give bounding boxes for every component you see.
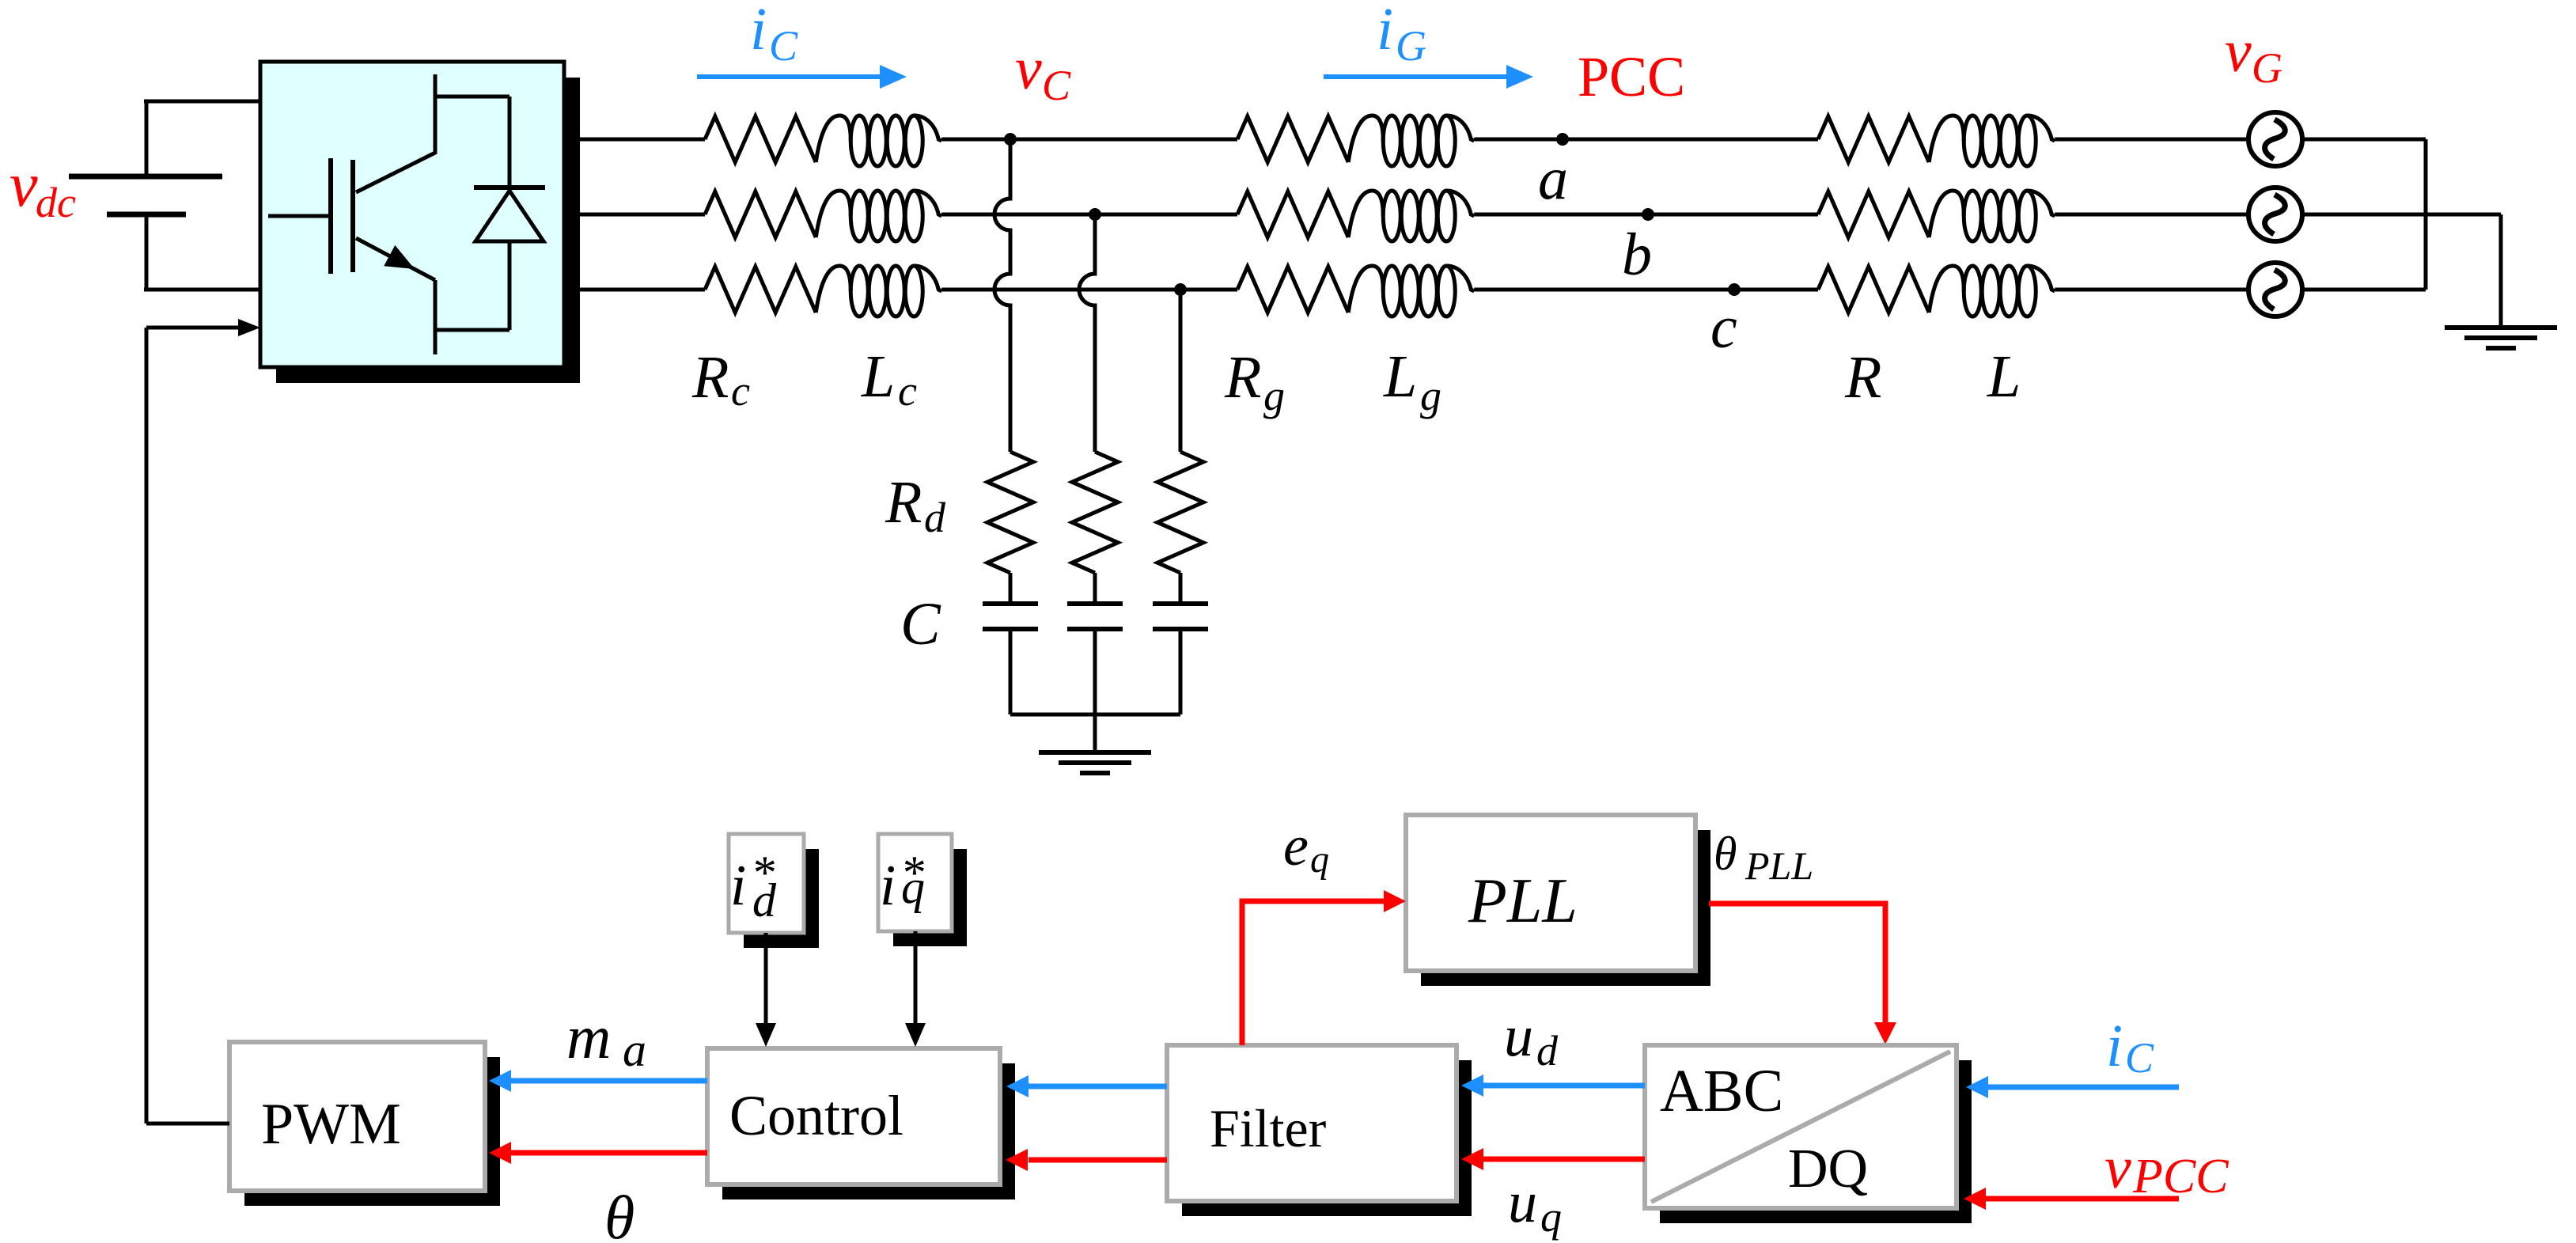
resistor Rc phase c [705, 267, 816, 313]
resistor Rd branch c [1157, 452, 1203, 573]
arrow i_G [1324, 65, 1533, 89]
block Control [707, 1048, 1015, 1199]
svg-text:b: b [1622, 222, 1652, 288]
wire c Lg to R [1474, 288, 1818, 292]
svg-text:R: R [1844, 344, 1881, 411]
label Rd [885, 469, 946, 541]
arrow theta_PLL PLL to ABCDQ [1709, 904, 1896, 1044]
ground grid neutral [2445, 328, 2557, 348]
label L [1987, 343, 2021, 410]
label i_C top [750, 0, 798, 70]
arrow u_d Filter to Control (blue) [1006, 1075, 1167, 1097]
label PCC [1578, 45, 1685, 108]
svg-text:u: u [1508, 1170, 1537, 1235]
wire c Lc to Rg [941, 288, 1237, 292]
svg-text:PLL: PLL [1468, 866, 1578, 936]
resistor R phase b [1818, 191, 1929, 237]
svg-text:m: m [566, 1002, 611, 1071]
svg-text:a: a [623, 1024, 646, 1076]
wire PWM to inverter gate [146, 319, 260, 336]
arrow e_q Filter to PLL [1242, 890, 1406, 1045]
svg-text:d: d [924, 494, 946, 541]
label Lc [861, 343, 917, 415]
wire C to bus branch a [1009, 629, 1013, 714]
svg-text:c: c [898, 367, 917, 415]
label R [1844, 344, 1881, 411]
label v_C [1015, 36, 1071, 109]
wire source a to neutral [2302, 138, 2426, 142]
diagonal ABC-DQ [1651, 1052, 1950, 1202]
wire b Lc to Rg [941, 213, 1237, 217]
inductor Lc phase c [816, 266, 941, 316]
svg-text:i: i [1377, 0, 1393, 63]
block PLL [1406, 815, 1710, 986]
inductor L phase c [1929, 266, 2055, 316]
arrow v_PCC into ABCDQ [1964, 1188, 2179, 1210]
svg-text:G: G [1396, 22, 1426, 70]
arrow i_C [697, 65, 907, 89]
wire c L to source [2055, 288, 2248, 292]
label v_G [2225, 18, 2282, 92]
inductor Lc phase a [816, 116, 941, 166]
svg-text:c: c [731, 367, 750, 415]
inductor Lc phase b [816, 191, 941, 241]
resistor Rd branch a [987, 452, 1033, 573]
label theta_PLL [1714, 828, 1813, 888]
capacitor C branch b [1067, 604, 1123, 629]
svg-text:i: i [880, 853, 896, 917]
arrow theta Control to PWM [489, 1142, 707, 1164]
inverter block U1 [260, 62, 564, 367]
wire diode bottom to emitter [435, 328, 510, 332]
wire damp branch b vertical [1079, 214, 1095, 452]
capacitor C branch a [983, 604, 1038, 629]
wire inverter phase a [564, 138, 705, 142]
wire capacitor bus [1010, 713, 1180, 717]
wire damp branch c vertical [1179, 290, 1183, 452]
wire battery bottom to inverter [144, 288, 260, 292]
wire a Lg to R [1474, 138, 1818, 142]
label PWM [261, 1092, 401, 1157]
wire inverter phase c [564, 288, 705, 292]
wire PWM feedback vertical [145, 328, 149, 1124]
svg-text:a: a [1538, 146, 1568, 212]
svg-text:Filter: Filter [1210, 1098, 1327, 1158]
svg-text:g: g [1263, 372, 1285, 419]
arrow iq* to Control [905, 931, 926, 1047]
wire Rd to C branch b [1093, 573, 1097, 604]
node PCC a [1556, 133, 1569, 146]
svg-text:θ: θ [1714, 828, 1737, 880]
label Rg [1224, 344, 1285, 419]
resistor Rg phase a [1237, 116, 1348, 162]
svg-text:v: v [2225, 18, 2252, 85]
svg-text:G: G [2252, 44, 2282, 92]
label PLL [1468, 866, 1578, 936]
svg-text:v: v [2104, 1135, 2131, 1201]
resistor Rc phase a [705, 116, 816, 162]
svg-text:v: v [1015, 36, 1042, 102]
resistor R phase a [1818, 116, 1929, 162]
svg-text:L: L [861, 343, 895, 410]
resistor Rd branch b [1072, 452, 1118, 573]
svg-text:R: R [1224, 344, 1261, 411]
dc source V1 (v_dc battery) [69, 101, 222, 290]
svg-text:PCC: PCC [1578, 45, 1685, 108]
svg-text:u: u [1504, 1004, 1533, 1069]
block PWM [229, 1042, 500, 1206]
node PCC c [1728, 283, 1741, 296]
svg-text:Control: Control [729, 1084, 903, 1147]
arrow id* to Control [756, 933, 776, 1047]
label i_G [1377, 0, 1426, 70]
arrow u_q Filter to Control (red) [1006, 1149, 1167, 1171]
wire source c to neutral [2302, 288, 2426, 292]
ac source v_G phase c [2248, 263, 2302, 316]
svg-text:i: i [750, 0, 767, 63]
svg-text:i: i [730, 853, 746, 917]
wire source b to ground [2302, 214, 2501, 328]
wire a Lc to Rg [941, 138, 1237, 142]
label Control [729, 1084, 903, 1147]
ac source v_G phase b [2248, 188, 2302, 241]
label DQ [1788, 1139, 1868, 1199]
label v_dc [9, 150, 76, 226]
wire C to bus branch c [1179, 629, 1183, 714]
svg-text:L: L [1987, 343, 2021, 410]
svg-text:c: c [1710, 294, 1737, 361]
svg-text:θ: θ [604, 1183, 635, 1243]
svg-text:C: C [769, 22, 798, 70]
block id* reference [729, 834, 819, 948]
label id* [730, 847, 777, 927]
wire diode top to collector [435, 95, 510, 99]
label theta [604, 1183, 635, 1243]
wire a L to source [2055, 138, 2248, 142]
svg-text:DQ: DQ [1788, 1139, 1868, 1199]
wire Rd to C branch c [1179, 573, 1183, 604]
resistor Rc phase b [705, 191, 816, 237]
label node c [1710, 294, 1737, 361]
ac source v_G phase a [2248, 112, 2302, 166]
svg-text:C: C [900, 591, 941, 658]
node v_C phase c [1174, 283, 1187, 296]
svg-text:L: L [1383, 343, 1417, 410]
label u_d [1504, 1004, 1559, 1074]
label v_PCC [2104, 1135, 2229, 1203]
label iq* [880, 847, 925, 917]
svg-text:q: q [1310, 839, 1329, 881]
wire battery top to inverter [144, 100, 260, 104]
svg-text:PWM: PWM [261, 1092, 401, 1157]
diode D1 (freewheel) [474, 97, 545, 330]
svg-text:q: q [1540, 1193, 1562, 1241]
inverter block shadow [276, 78, 580, 383]
resistor R phase c [1818, 267, 1929, 313]
svg-text:C: C [2125, 1034, 2154, 1082]
resistor Rg phase c [1237, 267, 1348, 313]
node PCC b [1642, 208, 1654, 221]
svg-text:g: g [1420, 372, 1441, 419]
label u_q [1508, 1170, 1562, 1241]
node v_C phase b [1089, 208, 1101, 221]
wire inverter phase b [564, 213, 705, 217]
wire Rd to C branch a [1009, 573, 1013, 604]
ground filter capacitors [1039, 752, 1151, 773]
inductor L phase a [1929, 116, 2055, 166]
block ABC-DQ [1645, 1045, 1972, 1223]
label ABC [1660, 1058, 1783, 1124]
svg-text:e: e [1283, 814, 1309, 877]
inductor Lg phase b [1348, 191, 1474, 241]
inductor Lg phase c [1348, 266, 1474, 316]
svg-text:C: C [1042, 62, 1071, 109]
wire C to bus branch b [1093, 629, 1097, 714]
arrow m_a Control to PWM [489, 1070, 707, 1092]
wire neutral vertical [2424, 139, 2428, 290]
label node b [1622, 222, 1652, 288]
inductor L phase b [1929, 191, 2055, 241]
svg-text:v: v [9, 150, 38, 220]
label node a [1538, 146, 1568, 212]
svg-text:d: d [1536, 1027, 1559, 1074]
svg-text:ABC: ABC [1660, 1058, 1783, 1124]
svg-text:R: R [691, 344, 729, 411]
label Filter [1210, 1098, 1327, 1158]
label Lg [1383, 343, 1441, 419]
arrow i_C into ABCDQ [1966, 1076, 2179, 1098]
block iq* reference [878, 834, 967, 946]
arrow u_d ABCDQ to Filter [1461, 1074, 1645, 1097]
svg-text:PLL: PLL [1744, 843, 1813, 888]
label i_C bottom [2106, 1013, 2154, 1082]
svg-text:q: q [901, 861, 925, 913]
svg-text:PCC: PCC [2132, 1150, 2229, 1203]
wire damp branch a vertical [994, 139, 1010, 452]
arrow u_q ABCDQ to Filter [1461, 1148, 1645, 1170]
wire b L to source [2055, 213, 2248, 217]
svg-text:dc: dc [36, 179, 76, 226]
capacitor C branch c [1153, 604, 1208, 629]
wire feedback into PWM [146, 1122, 229, 1126]
inductor Lg phase a [1348, 116, 1474, 166]
svg-text:i: i [2106, 1013, 2123, 1079]
label Rc [691, 344, 750, 415]
wire bus to ground [1093, 714, 1097, 752]
block Filter [1167, 1045, 1472, 1216]
resistor Rg phase b [1237, 191, 1348, 237]
svg-text:R: R [885, 469, 922, 536]
label C [900, 591, 941, 658]
svg-text:d: d [752, 874, 777, 927]
transistor Q1 (IGBT) [268, 74, 435, 354]
label m_a [566, 1002, 646, 1076]
node v_C phase a [1004, 133, 1017, 146]
label e_q [1283, 814, 1329, 881]
wire b Lg to R [1474, 213, 1818, 217]
